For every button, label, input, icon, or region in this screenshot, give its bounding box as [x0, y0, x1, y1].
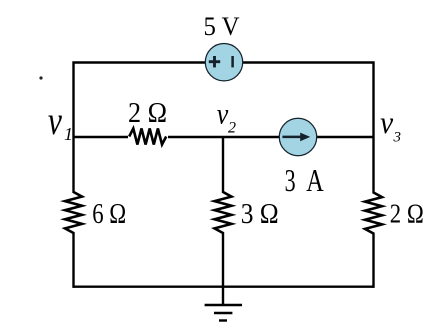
stray dot [39, 76, 42, 79]
ground [205, 287, 242, 321]
resistor R 2ohm right vertical [364, 193, 383, 234]
current source arrow [282, 133, 310, 142]
wire left vertical below v1 [72, 137, 74, 288]
svg-text:6 Ω: 6 Ω [92, 199, 126, 230]
voltage source plus sign [209, 56, 220, 67]
wire bottom [74, 286, 374, 288]
resistor R 2ohm horizontal between v1 and v2 [128, 128, 168, 146]
resistor R 3ohm middle vertical [214, 192, 233, 233]
resistor R 6ohm left vertical [64, 192, 83, 233]
voltage source minus bar [231, 56, 234, 67]
wire middle horizontal v1 to v3 [74, 136, 374, 138]
wire top from node v1 corner to v3 corner [74, 63, 374, 138]
svg-text:3 Ω: 3 Ω [241, 199, 279, 230]
svg-text:3: 3 [393, 130, 402, 146]
svg-text:2 Ω: 2 Ω [390, 198, 424, 228]
voltage source V1 5V circle [205, 44, 242, 81]
svg-text:3: 3 [285, 162, 296, 198]
svg-text:A: A [306, 162, 324, 198]
svg-text:1: 1 [64, 124, 73, 144]
svg-text:v: v [380, 104, 394, 140]
svg-text:2 Ω: 2 Ω [128, 98, 167, 129]
current source I1 3A circle [279, 118, 316, 155]
wire right vertical below v3 [372, 137, 374, 288]
wire middle vertical below v2 [222, 137, 224, 288]
svg-text:v: v [48, 98, 62, 143]
svg-text:2: 2 [228, 120, 236, 137]
svg-text:5 V: 5 V [204, 12, 240, 41]
